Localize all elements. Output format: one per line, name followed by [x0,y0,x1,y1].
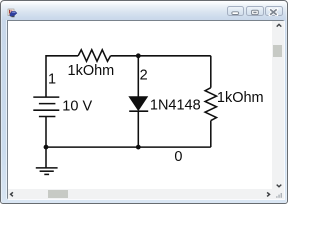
svg-text:1kOhm: 1kOhm [68,63,115,79]
wire: top rail right segment [111,55,211,57]
wire: right column bottom [210,121,212,148]
resistor R2 1kOhm vertical [205,88,216,121]
ground symbol [45,147,47,168]
title bar icon [7,8,18,19]
wire: battery bottom stub [45,117,47,148]
svg-text:1N4148: 1N4148 [150,98,201,114]
wire: right column top [210,56,212,88]
wire: battery top to top rail left segment [46,56,78,97]
junction node dot ground [44,145,49,150]
svg-text:1kOhm: 1kOhm [217,90,264,106]
resistor R1 1kOhm horizontal [78,50,110,62]
minimize button [227,6,245,16]
vertical scrollbar [272,21,284,189]
svg-text:2: 2 [140,67,148,83]
svg-text:10 V: 10 V [62,99,92,115]
junction node dot bottom rail middle [136,145,141,150]
horizontal scrollbar [8,189,272,199]
diode D1 triangle [129,97,147,110]
close button [265,6,283,16]
diode D1 cathode bar [129,110,148,112]
scrollbar corner with resize grip [272,189,284,199]
wire: bottom rail [46,146,211,148]
svg-text:0: 0 [174,149,182,165]
svg-text:1: 1 [48,72,56,88]
wire: middle column bottom [137,111,139,147]
schematic drawing [8,21,272,189]
maximize button [246,6,264,16]
junction node dot top (node 2) [136,53,141,58]
wire: middle column top (node 2) [137,56,139,97]
battery V1 plates [33,96,59,98]
schematic canvas widget [7,20,284,199]
